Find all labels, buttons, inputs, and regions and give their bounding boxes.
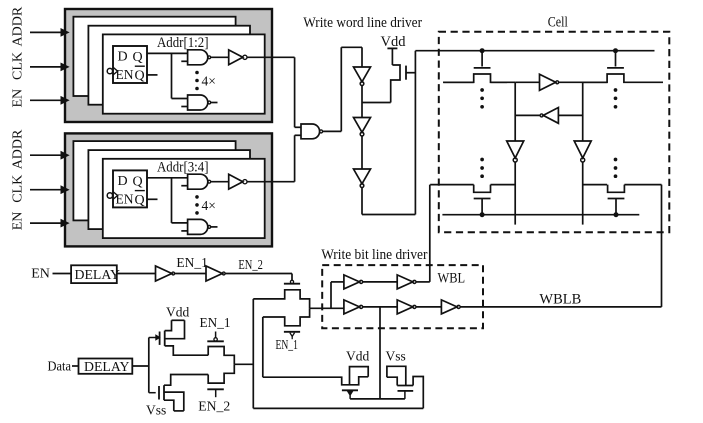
U3 output bubble: [320, 130, 323, 133]
input arrow ADDR: [30, 154, 63, 156]
inverter U9 (cell left, points down): [507, 141, 524, 158]
svg-text:WBL: WBL: [438, 271, 466, 287]
svg-text:Q: Q: [133, 50, 143, 65]
cell ellipsis dot: [614, 105, 618, 109]
svg-text:EN: EN: [116, 67, 134, 82]
wire chain output right: [362, 214, 415, 216]
cell ellipsis dot: [614, 96, 618, 100]
inverter U8 (cell, points left): [543, 108, 558, 124]
inverter U5 (chain 2): [354, 118, 371, 133]
wire right rail to M4 source: [583, 184, 607, 186]
wire M3 drain to left rail: [491, 184, 516, 186]
Q5 gate bar: [342, 389, 358, 391]
wire U16 to U17: [416, 306, 441, 308]
svg-text:CLK: CLK: [11, 52, 26, 80]
address block 2 layer box middle: [88, 150, 250, 229]
wire NAND to inverter: [211, 56, 229, 58]
rail TG2-lower to Q5: [262, 317, 264, 377]
wire branch to lower NAND: [172, 98, 188, 100]
Q6 Vss hook: [387, 366, 406, 385]
address block 2 layer box back: [73, 141, 235, 220]
junction M3 gate / bottom wire: [480, 212, 485, 217]
data inverter gate rail: [148, 338, 150, 393]
U7 output bubble: [556, 81, 559, 84]
svg-text:Vdd: Vdd: [346, 349, 369, 364]
input arrow EN: [30, 99, 63, 101]
wire U5 to U6: [361, 136, 363, 169]
TG1 upper gate bar: [207, 340, 224, 342]
DELAY box 1: [71, 265, 117, 283]
NAND gate U3 (word line decode): [301, 124, 320, 139]
TG2 upper gate bar: [284, 283, 300, 285]
inverter U6 (chain 3): [354, 169, 371, 184]
wire node A to inverter U7 input: [515, 81, 539, 83]
wire M1 drain to node A: [491, 81, 516, 83]
Q5 gate stem: [349, 395, 351, 399]
TG2 lower gate bar: [284, 331, 300, 333]
U2 Qbar overline: [135, 190, 145, 192]
ellipsis dot: [195, 79, 199, 83]
wire U4 to U5: [361, 86, 363, 118]
lower NAND stub input: [181, 230, 187, 232]
output inverter in address block 1: [229, 50, 243, 65]
TG2 EN_1 gate arrow: [290, 333, 295, 337]
svg-text:EN_2: EN_2: [238, 257, 263, 272]
output inverter bubble: [243, 55, 247, 59]
wire U6 output down: [361, 188, 363, 215]
U1 clock edge triangle: [113, 67, 118, 75]
TG1 EN_1 gate bubble: [214, 338, 217, 341]
wire branch to lower NAND: [172, 222, 188, 224]
Q2 Vdd bar: [172, 319, 185, 321]
svg-text:CLK: CLK: [11, 175, 26, 203]
Q3 body tie: [164, 392, 184, 411]
block output wire: [247, 56, 295, 58]
wire Q6 drain down: [413, 377, 423, 409]
buffer U15 (WBLB): [344, 300, 360, 314]
cell ellipsis dot: [480, 96, 484, 100]
U1 clock bubble: [107, 68, 112, 73]
cell ellipsis dot: [480, 174, 484, 178]
cell left rail upper: [514, 82, 516, 141]
address block 1 layer box front: [103, 34, 265, 113]
TG1 lower gate bar: [207, 388, 224, 390]
cell right rail upper: [582, 82, 584, 141]
junction word line / M2 gate: [613, 48, 618, 53]
svg-text:EN_1: EN_1: [200, 316, 231, 331]
svg-text:ADDR: ADDR: [11, 129, 26, 169]
wire up: [340, 47, 342, 131]
transistor Q2 (data PMOS): [149, 337, 156, 339]
U1 Qbar overline: [135, 65, 145, 67]
svg-text:EN: EN: [116, 191, 134, 206]
svg-text:Write word line driver: Write word line driver: [303, 14, 422, 31]
svg-text:D: D: [118, 174, 128, 189]
svg-text:Vdd: Vdd: [166, 305, 189, 320]
lower NAND output stub: [211, 226, 218, 228]
upper NAND stub input: [181, 60, 187, 62]
wire U8 output to left rail: [515, 114, 540, 116]
output inverter in address block 2: [229, 174, 243, 189]
lower NAND output bubble: [208, 226, 211, 229]
svg-text:EN: EN: [11, 212, 26, 231]
input arrow EN: [30, 222, 63, 224]
lower NAND output bubble: [208, 101, 211, 104]
cell right rail lower: [582, 162, 584, 225]
svg-text:Vss: Vss: [146, 403, 166, 418]
wire into U3 input B: [295, 134, 301, 136]
cell ellipsis dot: [614, 166, 618, 170]
Cell dashed boundary box: [439, 32, 670, 233]
Q5 Vdd hook: [350, 367, 369, 385]
Q3 Vss bar: [174, 410, 184, 412]
svg-text:Vss: Vss: [386, 349, 406, 364]
wire Q2 drain to TG1: [165, 346, 209, 355]
Q6 gate bar: [398, 390, 414, 392]
address block 1 layer box back: [73, 17, 235, 96]
TG1 channels and leads: [208, 347, 234, 365]
D flip-flop U2 box: [113, 170, 147, 207]
wire branch down: [171, 53, 173, 98]
NAND gate upper in address block 1: [188, 50, 208, 65]
lower NAND output stub: [211, 102, 218, 104]
wire U7 output to node B: [559, 81, 607, 83]
input arrow ADDR: [30, 31, 63, 33]
svg-text:EN: EN: [31, 266, 50, 281]
lower NAND stub input: [181, 106, 187, 108]
address block 1: gray container box: [65, 9, 272, 122]
wire M4 drain to WBLB riser: [624, 184, 661, 186]
svg-text:EN_1: EN_1: [276, 337, 298, 352]
TG1 output wire: [234, 363, 252, 365]
TG2 upper channel/leads: [253, 290, 309, 309]
wire NAND to inverter: [211, 181, 229, 183]
Q1 gate wire to word line: [406, 72, 415, 74]
bottom return wire: [253, 407, 423, 409]
junction word line / M1 gate: [480, 48, 485, 53]
Q1 gate bar: [405, 66, 407, 80]
address block 1 layer box middle: [88, 26, 250, 105]
wire DELAY2 to inverter input: [132, 365, 149, 367]
WBLB riser wire: [661, 185, 663, 307]
U2 Qbar stub wire: [147, 198, 158, 200]
write bit line driver dashed box: [322, 265, 483, 328]
svg-text:Data: Data: [48, 359, 72, 374]
TG2 EN_1 gate arrow stem: [291, 336, 293, 339]
cell left rail lower: [514, 162, 516, 225]
wire EN to DELAY1: [53, 273, 72, 275]
D flip-flop U1 box: [113, 46, 147, 83]
wire WBLB tap down to Q5/Q6 gates: [379, 307, 381, 399]
NAND gate lower in address block 1: [188, 95, 208, 110]
rail TG2-upper / TG1-output / bottom: [252, 299, 254, 409]
Q6 channel: [397, 385, 413, 387]
buffer U17 (WBLB): [441, 300, 457, 314]
svg-text:DELAY: DELAY: [75, 267, 121, 282]
WBLB wire to cell: [460, 306, 661, 308]
wire branch down: [171, 178, 173, 223]
wire U1 Q to NAND top input: [147, 52, 188, 54]
block output wire: [247, 181, 295, 183]
transistor Q1 keeper PMOS: [391, 65, 400, 103]
cell bottom select wire: [442, 214, 639, 216]
transistor M3 (cell bottom-left): [474, 185, 491, 193]
svg-text:Addr[3:4]: Addr[3:4]: [157, 158, 209, 175]
wire U14 output: [416, 281, 430, 283]
write word line wire: [415, 50, 654, 52]
wire Data to DELAY2: [72, 365, 79, 367]
cell ellipsis dot: [480, 88, 484, 92]
svg-text:DELAY: DELAY: [84, 359, 130, 374]
TG1 EN_2 gate stem: [215, 389, 217, 397]
inverter U7 (cell, points right): [540, 74, 556, 90]
inverter U4 (chain 1): [354, 67, 371, 82]
U8 output bubble: [540, 114, 543, 117]
svg-text:EN_1: EN_1: [176, 255, 208, 270]
cell ellipsis dot: [480, 158, 484, 162]
wire U2 Q to NAND top input: [147, 177, 188, 179]
DELAY box 2: [79, 359, 133, 374]
svg-text:Write bit line driver: Write bit line driver: [321, 247, 427, 263]
upper NAND output bubble: [208, 56, 211, 59]
wire DELAY1 to buffer U11: [117, 273, 156, 275]
wire EN_2: [225, 273, 292, 275]
U2 clock edge triangle: [113, 192, 118, 200]
TG2 lower channel/leads: [263, 308, 310, 326]
wire across top: [341, 46, 362, 48]
wire U11 to U12: [175, 273, 206, 275]
transistor M2 (cell top-right): [615, 51, 617, 67]
svg-text:4×: 4×: [202, 74, 216, 89]
TG1 lower branch: [208, 364, 234, 383]
svg-text:D: D: [118, 50, 128, 65]
address block 2: gray container box: [65, 133, 272, 246]
WBL riser wire: [429, 185, 431, 282]
wire U3 output right: [323, 130, 342, 132]
cell ellipsis dot: [614, 174, 618, 178]
transistor M1 (cell top-left): [481, 51, 483, 67]
wire M1 source stub: [443, 81, 474, 83]
transistor Q3 (data NMOS): [149, 392, 156, 394]
cell ellipsis dot: [614, 88, 618, 92]
svg-text:Q: Q: [135, 69, 145, 84]
cell ellipsis dot: [614, 158, 618, 162]
output inverter bubble: [243, 180, 247, 184]
wire node to keeper transistor source: [362, 102, 391, 104]
wire U15 to U16: [363, 306, 398, 308]
wire Q5 gate to Q6 gate: [350, 398, 405, 400]
Q5 gate arrow: [348, 391, 353, 395]
U2 clock bubble: [107, 193, 112, 198]
TG2 EN_2 gate bubble: [290, 280, 293, 283]
wire to U13: [331, 281, 344, 283]
NAND gate upper in address block 2: [188, 174, 208, 189]
input arrow CLK: [30, 66, 63, 68]
svg-text:EN: EN: [11, 89, 26, 108]
junction M4 gate / bottom wire: [614, 212, 619, 217]
inverter U11 (EN chain): [156, 266, 172, 281]
inverter U12 (EN chain): [206, 266, 222, 281]
svg-text:Q: Q: [133, 174, 143, 189]
wire Q3 drain to TG1: [164, 375, 208, 386]
wire U13 to U14: [363, 281, 398, 283]
transistor M4 (cell bottom-right): [608, 185, 625, 193]
wire block1 output down to NAND U3 input A: [294, 57, 296, 127]
address block 2 layer box front: [103, 159, 265, 238]
input arrow CLK: [30, 189, 63, 191]
buffer U14 (WBL): [397, 275, 413, 289]
inverter U10 (cell right, points down): [574, 141, 591, 158]
cell ellipsis dot: [480, 166, 484, 170]
U1 Qbar stub wire: [147, 74, 158, 76]
upper NAND stub input: [181, 185, 187, 187]
wire U8 input from right rail: [558, 114, 582, 116]
NAND gate lower in address block 2: [188, 219, 208, 234]
svg-text:Q: Q: [135, 193, 145, 208]
svg-text:ADDR: ADDR: [11, 6, 26, 46]
svg-text:WBLB: WBLB: [539, 292, 581, 308]
wire down into inverter chain: [361, 47, 363, 67]
ellipsis dot: [195, 203, 199, 207]
TG2 output wire to driver: [310, 307, 344, 309]
wire block2 output up to NAND U3 input B: [294, 135, 296, 181]
TG1 EN_1 gate stem: [215, 332, 217, 338]
svg-text:Cell: Cell: [548, 13, 568, 30]
wire into U3 input A: [295, 126, 301, 128]
buffer U16 (WBLB): [397, 300, 413, 314]
svg-text:EN_2: EN_2: [198, 400, 230, 415]
ellipsis dot: [195, 71, 199, 75]
ellipsis dot: [195, 87, 199, 91]
svg-text:Addr[1:2]: Addr[1:2]: [157, 34, 209, 51]
wire EN_2 down to Q4 gate: [291, 274, 293, 281]
Vdd rail bar: [387, 47, 397, 49]
word line riser: [414, 51, 416, 215]
buffer U13 (WBL): [344, 275, 360, 289]
svg-text:4×: 4×: [202, 198, 216, 213]
wire Vdd down: [391, 48, 393, 65]
wire WBL riser to M3 source: [430, 184, 474, 186]
upper NAND output bubble: [208, 180, 211, 183]
cell ellipsis dot: [480, 105, 484, 109]
ellipsis dot: [195, 195, 199, 199]
Q6 gate stem: [404, 391, 406, 399]
ellipsis dot: [195, 211, 199, 215]
wire branch up to WBL buffers: [330, 282, 332, 308]
Q2 body tie: [165, 320, 185, 338]
